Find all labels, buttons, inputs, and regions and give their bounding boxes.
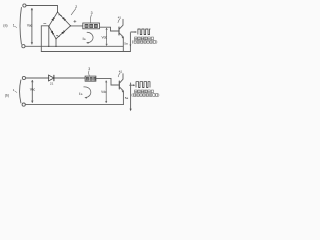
svg-text:1: 1 [13,23,15,27]
svg-text:Vdc: Vdc [101,90,107,94]
svg-text:Vac: Vac [27,24,33,28]
svg-text:5a: 5a [124,42,128,46]
svg-text:41: 41 [118,16,122,20]
svg-text:41: 41 [119,69,123,73]
svg-text:21: 21 [50,82,54,86]
svg-text:2: 2 [75,5,77,9]
svg-text:(b): (b) [5,94,9,98]
svg-text:Vac: Vac [30,88,36,92]
svg-text:(a): (a) [3,23,7,27]
svg-text:Vdc: Vdc [102,35,108,39]
svg-text:3: 3 [88,67,90,71]
svg-text:3: 3 [91,11,93,15]
svg-text:5a: 5a [125,96,129,100]
